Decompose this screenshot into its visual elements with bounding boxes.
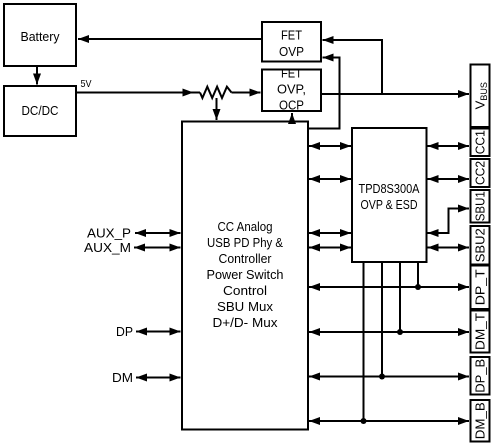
label AUX_M (84, 240, 131, 255)
label AUX_P (87, 226, 131, 241)
svg-text:DP_B: DP_B (473, 359, 488, 393)
block CC Analog USB PD controller (182, 122, 308, 430)
svg-text:AUX_P: AUX_P (87, 226, 131, 241)
svg-text:TPD8S300A: TPD8S300A (359, 181, 420, 196)
label DM (112, 370, 133, 385)
pin VBUS (471, 65, 490, 128)
junction DP_B (379, 374, 385, 380)
pin SBU2 (471, 226, 490, 265)
svg-text:DC/DC: DC/DC (22, 103, 59, 118)
svg-text:CC2: CC2 (473, 161, 488, 185)
wire resistor tap to controller (216, 98, 218, 120)
svg-text:Control: Control (223, 283, 267, 298)
wire SBU2 controller to TPD (309, 247, 351, 249)
wire SBU1 controller to TPD (309, 232, 351, 234)
wire SBU1 TPD to pin (428, 209, 470, 234)
wire DP_B (309, 376, 469, 378)
block Battery (4, 4, 76, 66)
svg-text:OVP: OVP (279, 44, 304, 59)
stub TPD to DP_T (417, 263, 419, 287)
svg-text:FET: FET (281, 28, 302, 43)
svg-text:CC1: CC1 (473, 130, 488, 154)
svg-text:OCP: OCP (279, 98, 304, 113)
pin CC1 (471, 129, 490, 157)
wire VBUS to FET OVP (323, 40, 383, 94)
block FET OVP OCP (262, 66, 321, 113)
svg-text:DP: DP (116, 324, 133, 339)
pin DP_T (471, 266, 490, 310)
svg-text:CC Analog: CC Analog (218, 219, 273, 234)
label 5V (81, 78, 92, 90)
resistor R1 (200, 87, 232, 98)
block FET OVP (262, 22, 321, 62)
block TPD8S300A (352, 128, 427, 262)
wire 5V from DC/DC (77, 92, 200, 94)
wire AUX_P (135, 232, 181, 234)
pin CC2 (471, 159, 490, 187)
wire CC1 controller to TPD (309, 145, 351, 147)
label DP (116, 324, 133, 339)
svg-text:DM: DM (112, 370, 133, 385)
svg-text:DM_T: DM_T (473, 313, 488, 350)
wire DM_B (309, 420, 469, 422)
junction DM_T (397, 329, 403, 335)
svg-text:SBU1: SBU1 (473, 191, 488, 221)
svg-text:DP_T: DP_T (473, 269, 488, 305)
svg-text:Power Switch: Power Switch (207, 267, 284, 282)
svg-text:DM_B: DM_B (473, 402, 488, 439)
svg-text:D+/D- Mux: D+/D- Mux (213, 315, 279, 330)
stub TPD to DP_B (381, 263, 383, 377)
wire SBU2 TPD to pin (428, 247, 470, 249)
svg-text:OVP & ESD: OVP & ESD (361, 197, 418, 212)
wire Battery to DC/DC (36, 67, 38, 85)
wire controller to FET OVP gate (308, 58, 340, 129)
wire AUX_M (134, 247, 181, 249)
wire CC2 controller to TPD (309, 178, 351, 180)
wire DP (136, 331, 181, 333)
svg-text:OVP,: OVP, (277, 82, 306, 97)
wire DP_T (309, 286, 469, 288)
wire controller to FET OVP OCP (291, 113, 293, 121)
stub TPD to DM_B (363, 263, 365, 421)
svg-text:FET: FET (281, 66, 302, 81)
junction DP_T (415, 284, 421, 290)
pin DP_B (471, 357, 490, 395)
svg-text:AUX_M: AUX_M (84, 240, 131, 255)
wire CC2 TPD to pin (428, 178, 470, 180)
block DC/DC (4, 86, 76, 136)
svg-text:USB PD Phy &: USB PD Phy & (207, 235, 283, 250)
svg-text:Controller: Controller (219, 251, 273, 266)
stub TPD to DM_T (399, 263, 401, 332)
wire DM (136, 377, 181, 379)
pin SBU1 (471, 190, 490, 223)
pin DM_T (471, 311, 490, 353)
svg-text:SBU2: SBU2 (473, 228, 488, 262)
pin DM_B (471, 400, 490, 442)
wire resistor to FET OVP OCP (232, 92, 261, 94)
junction DM_B (361, 418, 367, 424)
svg-text:5V: 5V (81, 78, 92, 90)
wire VBUS net (321, 93, 469, 95)
svg-text:Battery: Battery (21, 29, 60, 44)
wire DM_T (309, 331, 469, 333)
wire CC1 TPD to pin (428, 145, 470, 147)
svg-text:SBU Mux: SBU Mux (217, 299, 274, 314)
wire FET OVP to Battery (78, 38, 262, 40)
